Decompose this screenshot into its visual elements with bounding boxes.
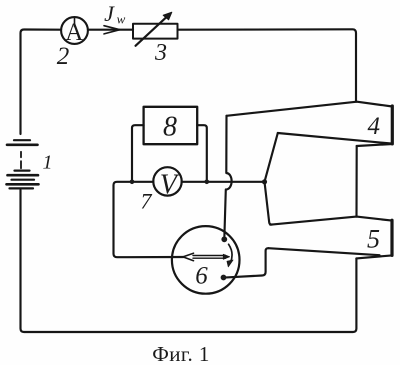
svg-text:J: J xyxy=(104,1,115,26)
svg-text:A: A xyxy=(65,19,83,46)
node: block8 right at voltmeter wire xyxy=(205,180,210,185)
svg-text:4: 4 xyxy=(368,113,381,140)
wire between electrodes (right mid rail) xyxy=(355,146,357,217)
switch 6 (rotary contact) xyxy=(172,226,240,294)
node: block8 left at voltmeter wire xyxy=(130,180,135,185)
wire ammeter to rheostat xyxy=(88,29,133,31)
wire block 8 right lead xyxy=(197,125,207,182)
wire voltmeter left segment xyxy=(114,182,184,257)
contact bottom dot xyxy=(221,275,227,281)
svg-text:2: 2 xyxy=(57,43,70,70)
ammeter 2 xyxy=(61,17,88,44)
wire voltmeter right segment xyxy=(182,181,265,183)
battery 1 xyxy=(7,140,39,188)
wire electrode4 tip down to switch (with hop over voltmeter wire) xyxy=(224,116,231,237)
svg-text:8: 8 xyxy=(163,112,177,143)
wire switch bottom contact to electrode 5 xyxy=(226,248,268,277)
svg-text:Фиг. 1: Фиг. 1 xyxy=(152,342,209,365)
svg-text:7: 7 xyxy=(141,189,153,214)
contact top dot xyxy=(221,236,227,242)
svg-text:w: w xyxy=(117,12,126,27)
svg-text:3: 3 xyxy=(154,40,167,66)
rheostat 3 xyxy=(133,12,178,46)
svg-text:V: V xyxy=(160,170,180,201)
current arrow Jw xyxy=(104,26,120,34)
svg-text:6: 6 xyxy=(195,263,208,290)
label Jw xyxy=(104,1,126,27)
block 8 xyxy=(144,107,198,144)
wire top-left: left rail top to ammeter xyxy=(21,30,62,135)
wire node A up to electrode 4 and down to electrode 5 xyxy=(265,133,278,225)
electrode 5 (lower wedge) xyxy=(269,217,393,259)
svg-text:1: 1 xyxy=(43,152,53,174)
svg-text:5: 5 xyxy=(367,225,380,254)
node A: fork inner edge junction xyxy=(262,179,267,184)
voltmeter 7 xyxy=(153,167,181,195)
wire electrode 5 to bottom-right corner and bottom rail xyxy=(21,190,357,332)
wire rheostat to top-right corner, down to electrode 4 xyxy=(178,29,357,101)
wire block 8 left lead xyxy=(132,125,144,182)
electrode 4 (upper wedge) xyxy=(227,102,393,146)
